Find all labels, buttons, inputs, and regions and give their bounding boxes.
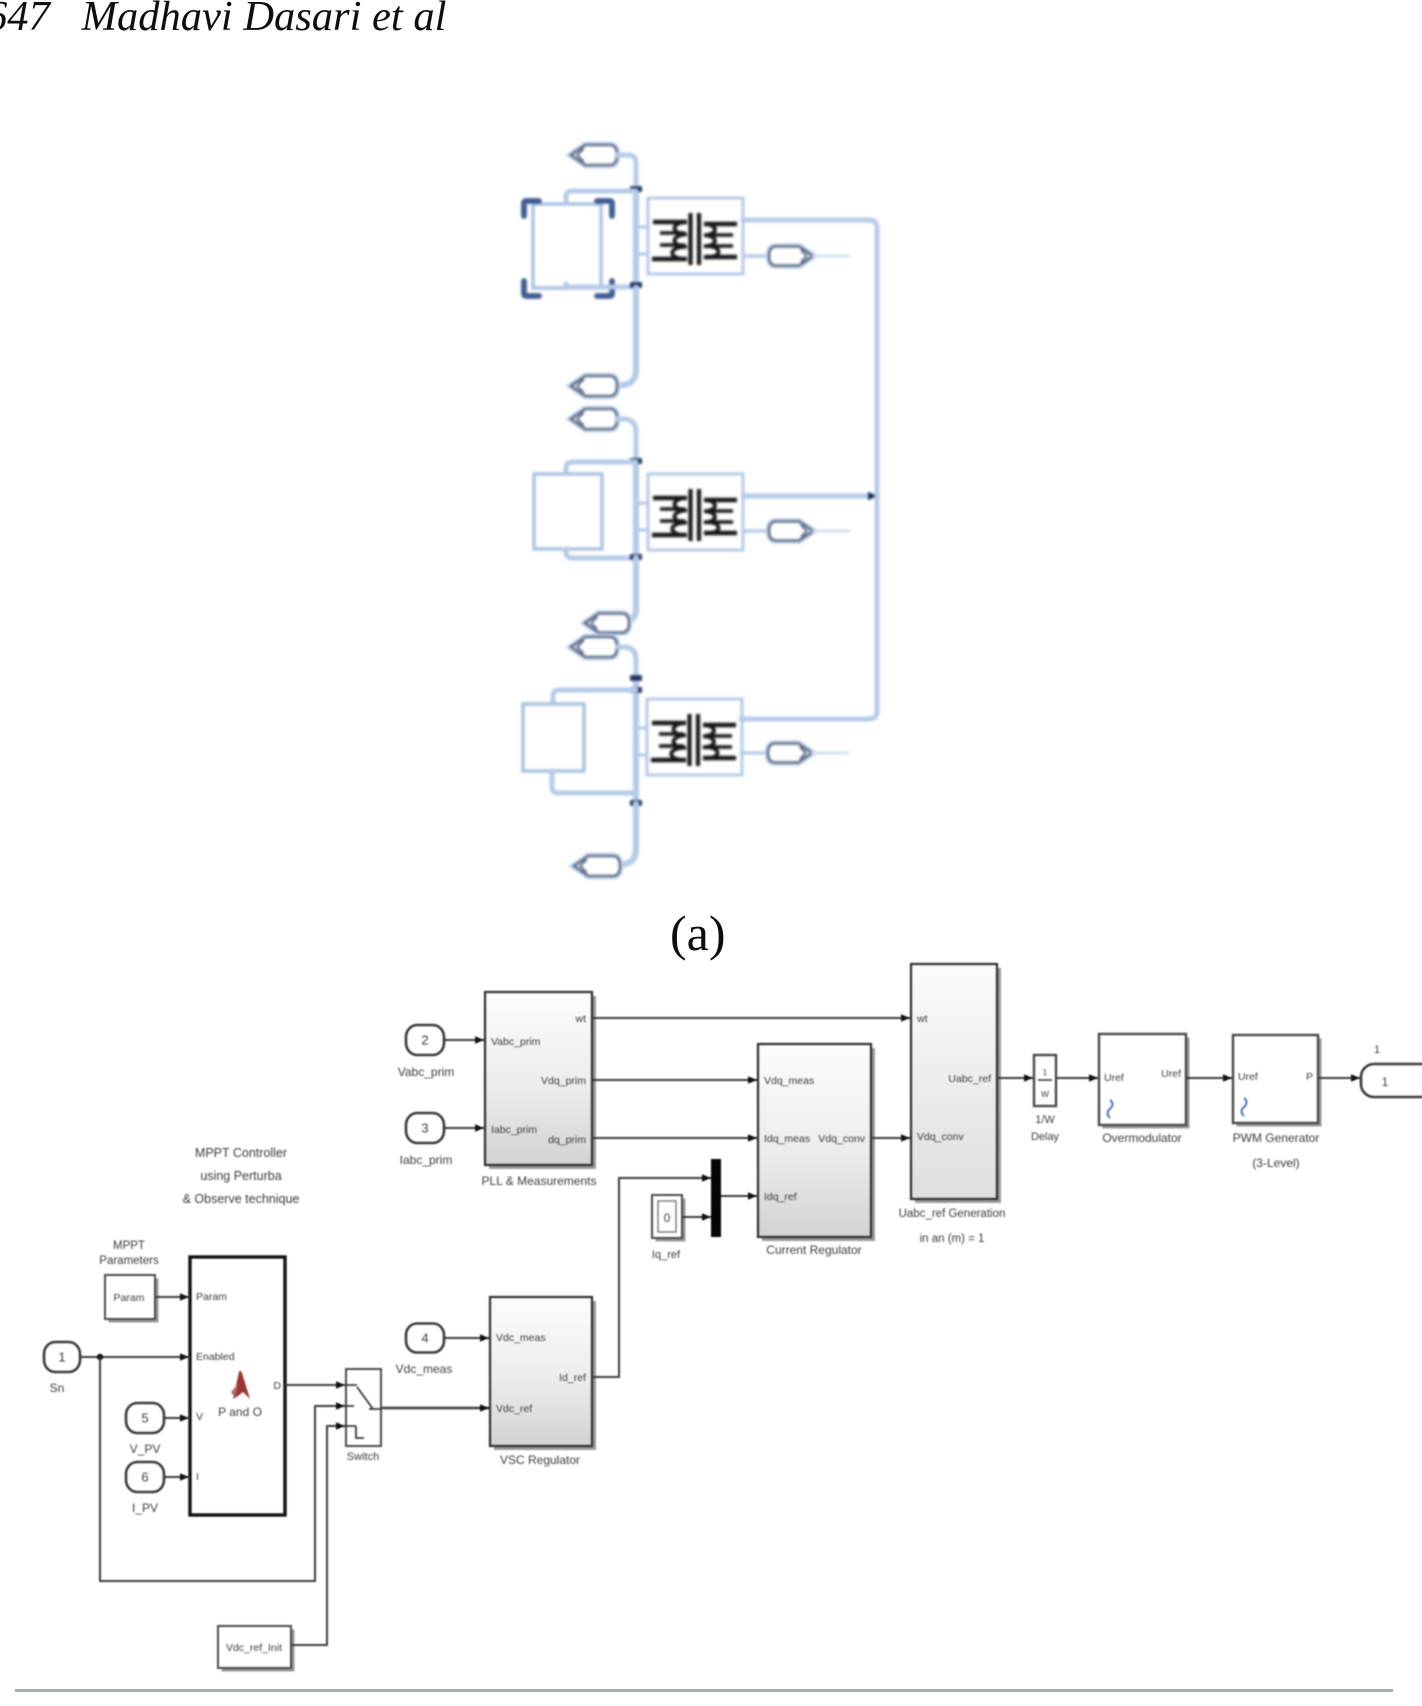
svg-text:dq_prim: dq_prim [548,1134,586,1146]
wire T1 secondary top to right bus [743,220,877,496]
svg-text:Sn: Sn [50,1381,65,1395]
stub bus to T2 pin1 [639,501,649,504]
wire bridge1 bottom to bus [566,284,636,288]
stub bus to T3 pin1 [639,726,648,729]
stub bus to T3 pin2 [639,753,648,756]
wire U1.dq_prim to U4 [592,1137,758,1139]
port oval P2a [571,376,617,396]
block Switch U3 [346,1369,381,1446]
svg-text:6: 6 [141,1470,148,1485]
svg-text:Vdq_conv: Vdq_conv [818,1133,865,1145]
wire P1 to bus [617,155,636,192]
wire Overmodulator to PWM [1186,1077,1233,1079]
svg-text:Param: Param [196,1291,227,1303]
wire U6.Id_ref up to mux [592,1178,712,1377]
bridge block B3 [523,704,584,771]
wire delay to Overmodulator [1056,1077,1099,1079]
svg-text:Vdc_meas: Vdc_meas [496,1332,546,1344]
wire P2out tail [813,530,849,533]
wire T3 secondary top to right bus [741,494,877,719]
svg-text:Vdc_meas: Vdc_meas [396,1362,453,1376]
transformer block T2 [648,474,743,550]
svg-text:VSC Regulator: VSC Regulator [500,1453,580,1467]
svg-text:2: 2 [421,1033,428,1048]
wire U2.D to switch [285,1384,346,1386]
wire In2 to U1 [444,1039,485,1041]
arrow at right bus junction [868,492,877,501]
junction J1b [630,282,642,288]
wire U4 out to U5 [871,1137,911,1139]
subsystem block Uabc_ref Generation U5 [915,968,1001,1203]
bridge block B1 [533,204,601,288]
svg-text:Uref: Uref [1238,1071,1258,1083]
svg-text:& Observe technique: & Observe technique [183,1192,300,1206]
port oval P2out [769,522,813,541]
junction J1a [630,186,642,192]
svg-text:1: 1 [58,1350,65,1365]
mux bar [711,1159,721,1237]
svg-text:Iabc_prim: Iabc_prim [491,1124,537,1136]
svg-text:Idq_meas: Idq_meas [764,1133,810,1145]
page header text [0,0,446,41]
transformer T1 core [688,213,692,265]
wire Param to U2 [155,1296,190,1298]
transformer T3 primary winding [652,721,686,725]
svg-text:Param: Param [114,1292,145,1304]
input port In4 [406,1324,444,1353]
port oval P2b [571,409,617,429]
svg-text:Switch: Switch [347,1451,379,1463]
svg-text:Id_ref: Id_ref [559,1372,586,1384]
svg-text:MPPT Controller: MPPT Controller [195,1146,287,1160]
MPPT controller block U2 [190,1257,285,1515]
svg-text:Overmodulator: Overmodulator [1102,1131,1181,1145]
svg-text:(3-Level): (3-Level) [1252,1156,1299,1170]
wire P3out tail [812,752,848,755]
bus segment unit3 [633,678,639,806]
port oval P1out [769,247,813,266]
svg-text:Vdq_meas: Vdq_meas [764,1075,814,1087]
bus segment unit1 [633,190,639,290]
block Param source [109,1279,159,1323]
subsystem block PLL &amp; Measurements U1 [489,996,596,1169]
wire bridge2 bottom to bus [566,549,636,558]
svg-text:Vdc_ref_Init: Vdc_ref_Init [226,1642,282,1654]
wire P2b to bus [617,419,636,462]
junction J2b [630,554,642,560]
svg-text:1: 1 [1043,1067,1048,1077]
wire In6 to U2.I [164,1476,190,1478]
input port In1 [44,1342,80,1372]
wire U1.wt to U5.wt [592,1017,911,1019]
wire T3 output [741,751,769,755]
svg-text:D: D [273,1380,281,1392]
wire In4 to U6 [444,1337,490,1339]
block Iq_ref constant [656,1199,686,1242]
bottom page rule [15,1689,1393,1692]
transformer block T1 [648,198,743,274]
transformer block T3 [647,699,742,775]
wire Iq_ref to mux [682,1216,712,1218]
input port In5 [126,1403,164,1433]
svg-text:Iabc_prim: Iabc_prim [400,1153,453,1167]
svg-text:wt: wt [916,1013,928,1025]
stub bus to T1 pin1 [639,225,649,228]
svg-text:Current Regulator: Current Regulator [766,1243,861,1257]
stub bus to T1 pin2 [639,252,649,255]
wire PWM to Out1 [1318,1077,1361,1079]
port oval P3out [768,744,812,763]
transformer T3 secondary winding [703,723,736,727]
bus unit3 to P4 [620,804,636,866]
wire bus to bridge2 top [566,462,636,475]
svg-text:1/W: 1/W [1035,1114,1055,1126]
svg-text:Uref: Uref [1104,1072,1124,1084]
junction J3a [630,675,642,681]
wire T1 output [743,254,770,258]
transformer T2 primary winding [653,496,687,500]
svg-text:I_PV: I_PV [132,1501,158,1515]
svg-text:in an (m) = 1: in an (m) = 1 [920,1233,985,1245]
svg-text:1: 1 [1382,1075,1389,1089]
svg-text:Vabc_prim: Vabc_prim [398,1065,454,1079]
transformer T1 primary winding [653,220,687,224]
svg-text:Vdq_prim: Vdq_prim [541,1075,586,1087]
subsystem block Current Regulator U4 [762,1048,875,1241]
port oval P4 (bottom) [574,856,620,876]
svg-text:3: 3 [421,1121,428,1136]
blue glyph U9 [1242,1098,1247,1116]
wire P1out tail [813,255,849,258]
wire switch out to U6.Vdc_ref [381,1407,490,1409]
svg-text:Uref: Uref [1161,1068,1181,1080]
svg-text:Enabled: Enabled [196,1351,235,1363]
block PWM Generator U9 [1237,1039,1322,1127]
port oval P3a [585,614,629,633]
svg-text:V_PV: V_PV [130,1442,161,1456]
block 1/W Delay U7 [1034,1055,1056,1106]
svg-text:Vdq_conv: Vdq_conv [917,1131,964,1143]
block Vdc_ref_Init constant [222,1630,295,1672]
input port In6 [126,1462,164,1492]
svg-text:Parameters: Parameters [99,1255,159,1267]
svg-text:P: P [1306,1071,1313,1083]
svg-text:0: 0 [664,1211,671,1225]
bus unit1 to P2a [618,288,636,386]
subsystem block VSC Regulator U6 [494,1301,596,1450]
junction J2a [630,458,642,464]
svg-text:MPPT: MPPT [113,1240,145,1252]
svg-text:Vabc_prim: Vabc_prim [491,1036,541,1048]
input port In3 [406,1113,444,1143]
svg-text:Vdc_ref: Vdc_ref [496,1403,532,1415]
wire In1 to U2.Enabled [80,1356,190,1358]
wire T2 secondary top to right bus [743,494,874,499]
svg-text:Idq_ref: Idq_ref [764,1191,797,1203]
wire P3b to bus [617,647,636,692]
svg-text:PLL & Measurements: PLL & Measurements [482,1174,597,1188]
port oval P3b [571,637,617,657]
block Overmodulator U8 [1103,1038,1190,1129]
svg-text:Delay: Delay [1031,1131,1060,1143]
port oval P1 (top) [571,145,617,165]
wire In3 to U1 [444,1127,485,1129]
wire U5 out to delay [997,1077,1034,1079]
svg-text:4: 4 [421,1331,428,1346]
wire In1 branch down to switch input2 [100,1357,346,1581]
junction at In1 branch [97,1354,103,1360]
junction J3c [630,800,642,806]
transformer T2 core [688,489,692,541]
svg-text:using Perturba: using Perturba [200,1169,281,1183]
svg-text:5: 5 [141,1411,148,1426]
transformer T2 secondary winding [704,498,737,502]
figure label (a) [670,904,726,962]
wire bus to bridge3 top [553,690,636,705]
input port In2 [406,1025,444,1055]
MATLAB logo in U2 [233,1371,250,1399]
transformer T1 secondary winding [704,222,737,226]
wire U1.Vdq_prim to U4 [592,1079,758,1081]
svg-text:Uabc_ref Generation: Uabc_ref Generation [899,1208,1006,1220]
svg-text:W: W [1041,1089,1049,1099]
junction J3b [630,687,642,693]
stub bus to T2 pin2 [639,528,649,531]
bridge block B2 [534,474,602,549]
svg-text:I: I [196,1471,199,1483]
blue glyph U8 [1108,1100,1113,1118]
svg-text:1: 1 [1374,1044,1380,1056]
svg-text:V: V [196,1411,203,1423]
svg-text:Iq_ref: Iq_ref [652,1249,681,1261]
wire In5 to U2.V [164,1417,190,1419]
bus unit2 to P3a [629,558,636,622]
selection brackets around bridge block B1 [524,201,539,216]
transformer T3 core [687,714,691,766]
svg-text:P and O: P and O [218,1405,262,1419]
wire bus to bridge1 top [566,191,636,205]
svg-text:Uabc_ref: Uabc_ref [948,1073,991,1085]
wire bridge3 bottom to bus [552,771,636,793]
switch icon lines [346,1385,381,1438]
wire T2 output [743,529,770,533]
bus segment unit2 [633,460,639,560]
wire Vdc_ref_Init to switch input3 [291,1426,346,1645]
svg-text:wt: wt [575,1013,587,1025]
svg-text:PWM Generator: PWM Generator [1233,1131,1320,1145]
output port Out1 [1361,1064,1422,1097]
wire mux out to U4.Idq_ref [721,1195,758,1197]
